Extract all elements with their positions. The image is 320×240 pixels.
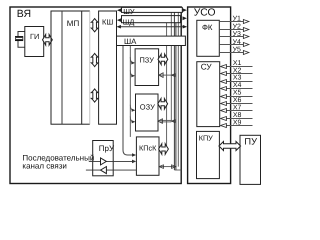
block PU (control console) (240, 135, 261, 184)
svg-text:Х8: Х8 (233, 112, 242, 119)
long double arrow KPU-PU (219, 142, 241, 151)
pin labels X1-X9 (233, 60, 242, 126)
hook wire to OZU pin1 (130, 105, 135, 112)
svg-text:УСО: УСО (194, 8, 216, 19)
wire arrow into KPsK left edge (123, 150, 134, 155)
wire ShU vertical drop 3 (177, 12, 179, 166)
output lines U1-U5 (219, 22, 243, 53)
svg-text:Х5: Х5 (233, 90, 242, 97)
svg-text:Х1: Х1 (233, 60, 242, 67)
block VYa (computing core) outer box (10, 7, 181, 184)
svg-text:КШ: КШ (102, 17, 113, 26)
svg-text:Х6: Х6 (233, 97, 242, 104)
block OZU (RAM) (136, 94, 159, 131)
svg-text:КПУ: КПУ (199, 134, 213, 143)
block USO outer box (188, 7, 231, 184)
svg-text:У4: У4 (233, 39, 241, 46)
svg-text:ШУ: ШУ (123, 7, 135, 16)
svg-text:Х7: Х7 (233, 104, 242, 111)
double arrow KPsK-data bus (159, 144, 169, 155)
svg-text:ПЗУ: ПЗУ (140, 55, 155, 64)
control arrow into PZU (159, 73, 176, 78)
wire from KSh to USO (address line) (117, 25, 187, 29)
svg-text:У3: У3 (233, 31, 241, 38)
svg-text:У5: У5 (233, 47, 241, 54)
svg-text:Х9: Х9 (233, 119, 242, 126)
double-headed control arrow KPsK (159, 165, 176, 169)
block FK (command former) (197, 20, 220, 56)
svg-text:МП: МП (67, 19, 80, 28)
bus ShA (address bus) (117, 36, 186, 46)
input lines X1-X9 (226, 67, 252, 126)
svg-text:Х4: Х4 (233, 82, 242, 89)
svg-text:ФК: ФК (202, 23, 213, 32)
serial line lower with buffer triangle (86, 167, 136, 174)
serial line upper with buffer triangle (89, 158, 136, 165)
hook wire to OZU pin2 (130, 116, 135, 123)
svg-text:Х3: Х3 (233, 75, 242, 82)
wire ShA drop to KPsK (122, 46, 124, 151)
wire ShU vertical drop 1 (control) (170, 12, 172, 121)
block PrU (transceiver) (93, 141, 114, 176)
block KPU (console controller) (197, 131, 220, 178)
block SU (signal matcher) (197, 62, 220, 127)
svg-text:ОЗУ: ОЗУ (140, 103, 155, 112)
svg-text:ВЯ: ВЯ (17, 8, 31, 20)
wire ShA feed rail to PZU/OZU (129, 46, 131, 137)
wire ShD vertical drop (data to PZU/OZU/KPsK) (166, 23, 168, 153)
svg-text:У2: У2 (233, 23, 241, 30)
hook wire to PZU pin2 (130, 70, 135, 77)
wire ShU vertical drop 2 (173, 12, 175, 170)
input arrowheads X1-X9 into SU (221, 65, 227, 128)
svg-text:ГИ: ГИ (30, 32, 39, 41)
pin labels U1-U5 (233, 16, 241, 54)
wire ShD vertical drop 2 (175, 23, 177, 171)
block MP (microprocessor) (51, 11, 82, 124)
svg-text:Х2: Х2 (233, 67, 242, 74)
block GI (clock generator) (25, 27, 44, 57)
block PZU (ROM) (135, 49, 159, 86)
bus ShD (data bus) (117, 16, 187, 27)
svg-text:У1: У1 (233, 16, 241, 23)
double arrow GI-MP (43, 35, 53, 46)
block KPsK (serial channel controller) (136, 137, 159, 175)
svg-text:ПУ: ПУ (244, 136, 257, 146)
crystal resonator symbol (15, 36, 23, 38)
svg-text:ШД: ШД (123, 18, 135, 27)
double arrow PZU-data bus (158, 54, 168, 65)
svg-text:канал связи: канал связи (22, 162, 67, 171)
double arrow OZU-data bus (158, 99, 168, 110)
bus ShU (control bus) (117, 7, 187, 16)
output arrowheads U1-U5 (243, 20, 248, 55)
svg-text:ША: ША (124, 37, 137, 46)
wire jog to VYa edge (174, 169, 181, 171)
svg-text:СУ: СУ (201, 62, 213, 71)
crystal resonator wires (18, 32, 25, 48)
double arrows MP-KSh (3x vertical) (91, 19, 98, 32)
control double-line arrow into OZU (158, 119, 176, 124)
block KSh (bus controller) (99, 11, 117, 124)
svg-text:КПсК: КПсК (139, 143, 157, 152)
hook wire to PZU pin1 (130, 57, 135, 65)
svg-text:ПрУ: ПрУ (99, 144, 115, 153)
